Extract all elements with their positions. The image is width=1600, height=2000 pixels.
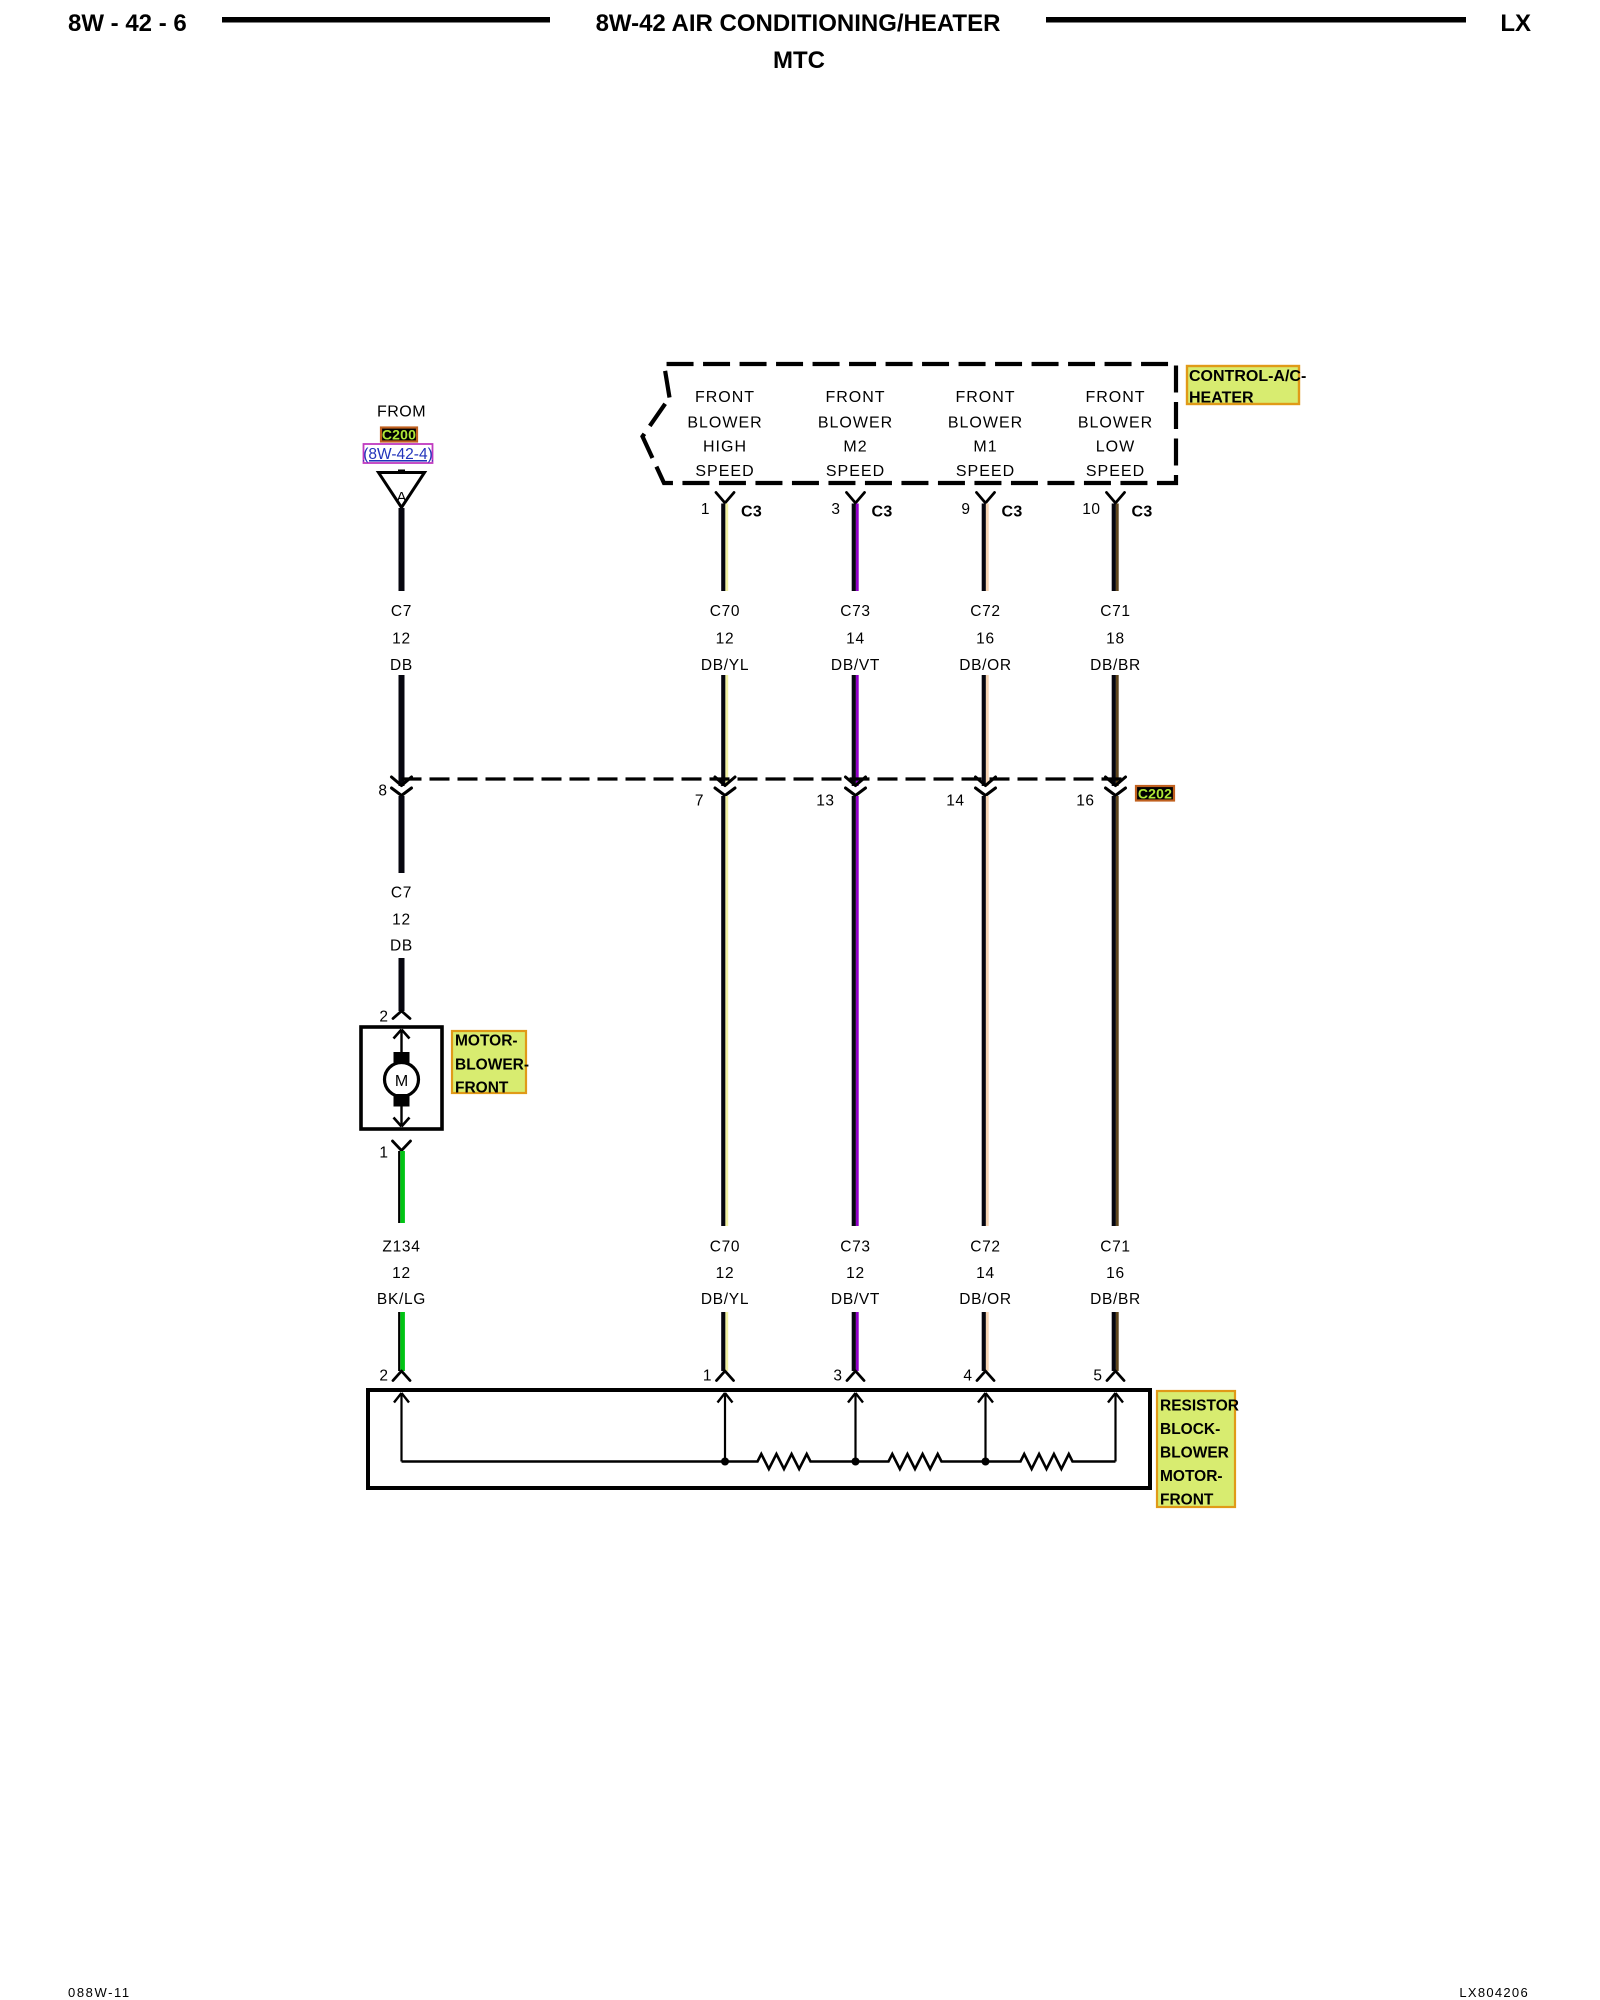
svg-text:12: 12	[846, 1265, 865, 1282]
svg-text:BLOWER-: BLOWER-	[455, 1057, 529, 1074]
svg-text:DB/YL: DB/YL	[701, 1291, 749, 1308]
svg-text:DB: DB	[390, 938, 413, 955]
svg-text:FRONT: FRONT	[1160, 1492, 1214, 1509]
label RESISTOR BLOCK-BLOWER MOTOR-FRONT	[1157, 1391, 1239, 1509]
connector C202 symbol pin 14	[976, 777, 996, 796]
connector C202 symbol pin 16	[1106, 777, 1126, 796]
svg-text:18: 18	[1106, 631, 1125, 648]
svg-text:FRONT: FRONT	[455, 1080, 509, 1097]
wire label C70 upper	[701, 603, 749, 674]
svg-text:C70: C70	[710, 603, 741, 620]
wire C73 segment D	[852, 1312, 859, 1371]
connector A triangle	[379, 470, 425, 508]
connector symbol motor pin 1	[393, 1141, 411, 1151]
wire label Z134 12 BK/LG	[377, 1239, 426, 1309]
wire C71 segment A	[1112, 504, 1119, 592]
svg-text:C200: C200	[382, 427, 416, 443]
wire C72 segment D	[982, 1312, 989, 1371]
connector symbol C3 pin 1	[716, 493, 734, 504]
svg-text:BLOWER: BLOWER	[1160, 1445, 1229, 1462]
svg-text:C73: C73	[840, 1239, 871, 1256]
wire label C70 lower	[701, 1239, 749, 1309]
wire label C7 12 DB lower	[390, 885, 413, 955]
junction dot at x=855.5	[852, 1458, 860, 1466]
connector symbol resistor pin 5	[1107, 1371, 1124, 1381]
svg-text:14: 14	[846, 631, 865, 648]
wire C73 segment C	[852, 796, 859, 1226]
connector C202 symbol pin 13	[846, 777, 866, 796]
wire label C73 upper	[831, 603, 880, 674]
svg-text:5: 5	[1093, 1368, 1102, 1385]
svg-text:DB/BR: DB/BR	[1090, 657, 1141, 674]
wire w1 green Z134 upper	[398, 1151, 405, 1223]
wire label C71 lower	[1090, 1239, 1141, 1309]
resistor block internal pin arrow at x=401.5	[394, 1393, 409, 1462]
svg-text:12: 12	[716, 631, 735, 648]
control box pin function text at x=985.5	[948, 389, 1023, 480]
svg-text:BLOWER: BLOWER	[948, 415, 1023, 432]
connector symbol resistor pin 1	[717, 1371, 734, 1381]
svg-text:3: 3	[831, 501, 840, 518]
svg-text:FRONT: FRONT	[1085, 389, 1145, 406]
svg-text:M: M	[395, 1073, 408, 1090]
svg-text:8: 8	[378, 783, 387, 800]
motor internal top arrow	[394, 1030, 410, 1053]
wire C70 segment B	[721, 675, 728, 786]
svg-text:2: 2	[379, 1368, 388, 1385]
svg-text:LOW: LOW	[1096, 439, 1135, 456]
wire label C73 lower	[831, 1239, 880, 1309]
svg-text:C71: C71	[1100, 1239, 1131, 1256]
svg-text:C72: C72	[970, 1239, 1001, 1256]
svg-text:C3: C3	[872, 504, 893, 521]
connector symbol C3 pin 10	[1107, 493, 1125, 504]
svg-text:BLOCK-: BLOCK-	[1160, 1421, 1220, 1438]
resistor block internal pin arrow at x=855.5	[848, 1393, 863, 1462]
svg-text:DB: DB	[390, 657, 413, 674]
svg-text:A: A	[396, 489, 406, 506]
wire label C71 upper	[1090, 603, 1141, 674]
svg-text:M2: M2	[843, 439, 867, 456]
wire C73 segment B	[852, 675, 859, 786]
svg-text:C202: C202	[1138, 786, 1172, 802]
svg-text:DB/OR: DB/OR	[959, 657, 1012, 674]
svg-text:BK/LG: BK/LG	[377, 1291, 426, 1308]
svg-text:MOTOR-: MOTOR-	[1160, 1468, 1223, 1485]
wire C70 segment A	[721, 504, 728, 592]
svg-text:10: 10	[1082, 501, 1100, 518]
control box pin function text at x=725.0	[687, 389, 762, 480]
control box pin function text at x=855.5	[818, 389, 893, 480]
svg-text:HIGH: HIGH	[703, 439, 747, 456]
svg-text:088W-11: 088W-11	[68, 1985, 131, 2000]
wire C73 segment A	[852, 504, 859, 592]
svg-text:12: 12	[392, 631, 411, 648]
svg-text:DB/VT: DB/VT	[831, 657, 880, 674]
svg-text:12: 12	[392, 1265, 411, 1282]
svg-text:FROM: FROM	[377, 404, 426, 421]
svg-text:C71: C71	[1100, 603, 1131, 620]
svg-text:16: 16	[1106, 1265, 1125, 1282]
resistor block internal pin arrow at x=725.0	[718, 1393, 733, 1462]
wire C70 segment C	[721, 796, 728, 1226]
header rule right	[1046, 17, 1466, 23]
svg-text:12: 12	[392, 912, 411, 929]
svg-text:DB/YL: DB/YL	[701, 657, 749, 674]
wire w1 segment B	[399, 675, 405, 786]
connector C202 symbol w1 pin 8	[392, 777, 412, 796]
svg-text:4: 4	[963, 1368, 972, 1385]
wire C72 segment B	[982, 675, 989, 786]
svg-text:12: 12	[716, 1265, 735, 1282]
svg-text:LX: LX	[1500, 10, 1531, 37]
svg-text:C3: C3	[1002, 504, 1023, 521]
svg-text:3: 3	[833, 1368, 842, 1385]
svg-text:MOTOR-: MOTOR-	[455, 1033, 518, 1050]
svg-text:7: 7	[695, 793, 704, 810]
svg-text:SPEED: SPEED	[1086, 463, 1145, 480]
connector symbol C3 pin 9	[977, 493, 995, 504]
svg-text:FRONT: FRONT	[825, 389, 885, 406]
svg-text:8W - 42 - 6: 8W - 42 - 6	[68, 10, 187, 37]
resistor block internal pin arrow at x=985.5	[978, 1393, 993, 1462]
wire C71 segment B	[1112, 675, 1119, 786]
svg-text:14: 14	[976, 1265, 995, 1282]
svg-text:DB/VT: DB/VT	[831, 1291, 880, 1308]
header rule left	[222, 17, 550, 23]
svg-text:MTC: MTC	[773, 47, 825, 74]
junction dot at x=725.0	[721, 1458, 729, 1466]
wire C72 segment C	[982, 796, 989, 1226]
svg-text:BLOWER: BLOWER	[687, 415, 762, 432]
wire C71 segment D	[1112, 1312, 1119, 1371]
wire w1 segment C	[399, 796, 405, 873]
svg-text:C7: C7	[391, 885, 412, 902]
junction dot at x=985.5	[982, 1458, 990, 1466]
component box RESISTOR BLOCK-BLOWER MOTOR-FRONT	[368, 1390, 1150, 1488]
svg-text:BLOWER: BLOWER	[1078, 415, 1153, 432]
connector symbol resistor pin 3	[847, 1371, 864, 1381]
motor brush top	[394, 1052, 410, 1065]
svg-text:FRONT: FRONT	[955, 389, 1015, 406]
hyperlink (8W-42-4)	[363, 444, 432, 463]
wire w1 segment D	[399, 958, 405, 1011]
svg-text:LX804206: LX804206	[1459, 1985, 1529, 2000]
svg-text:SPEED: SPEED	[826, 463, 885, 480]
wire C71 segment C	[1112, 796, 1119, 1226]
wire C70 segment D	[721, 1312, 728, 1371]
wire label C7 12 DB upper	[390, 603, 413, 674]
label MOTOR-BLOWER-FRONT	[452, 1031, 529, 1097]
svg-text:1: 1	[379, 1145, 388, 1162]
wire w1 segment A (C7 DB)	[399, 508, 405, 591]
svg-text:C70: C70	[710, 1239, 741, 1256]
svg-text:16: 16	[1076, 793, 1094, 810]
hyperlink chip C200	[381, 427, 417, 443]
svg-text:M1: M1	[973, 439, 997, 456]
connector symbol motor pin 2	[393, 1011, 410, 1019]
svg-text:C3: C3	[741, 504, 762, 521]
component box CONTROL-A/C-HEATER (dashed)	[643, 364, 1177, 483]
connector C202 symbol pin 7	[715, 777, 735, 796]
svg-text:RESISTOR: RESISTOR	[1160, 1398, 1239, 1415]
connector C202 dashed line	[402, 777, 1125, 780]
hyperlink chip C202	[1136, 786, 1174, 802]
resistor block bus wire with resistors R1 R2 R3	[402, 1454, 1116, 1469]
svg-text:C73: C73	[840, 603, 871, 620]
svg-text:14: 14	[946, 793, 964, 810]
svg-text:16: 16	[976, 631, 995, 648]
wire w1 green Z134 lower	[398, 1312, 405, 1371]
svg-text:1: 1	[701, 501, 710, 518]
wire label C72 upper	[959, 603, 1012, 674]
svg-text:DB/OR: DB/OR	[959, 1291, 1012, 1308]
svg-text:C3: C3	[1132, 504, 1153, 521]
control box pin function text at x=1115.5	[1078, 389, 1153, 480]
motor brush bottom	[394, 1094, 410, 1107]
label CONTROL-A/C-HEATER	[1187, 366, 1306, 407]
svg-text:8W-42 AIR CONDITIONING/HEATER: 8W-42 AIR CONDITIONING/HEATER	[596, 10, 1001, 37]
motor internal bottom arrow	[394, 1107, 410, 1127]
svg-text:BLOWER: BLOWER	[818, 415, 893, 432]
svg-text:HEATER: HEATER	[1189, 390, 1254, 407]
svg-text:C72: C72	[970, 603, 1001, 620]
svg-text:CONTROL-A/C-: CONTROL-A/C-	[1189, 368, 1306, 385]
svg-text:(8W-42-4): (8W-42-4)	[363, 446, 432, 463]
connector symbol resistor pin 2	[393, 1371, 410, 1381]
svg-text:1: 1	[703, 1368, 712, 1385]
svg-text:2: 2	[379, 1009, 388, 1026]
svg-text:FRONT: FRONT	[695, 389, 755, 406]
svg-text:Z134: Z134	[382, 1239, 420, 1256]
wire label C72 lower	[959, 1239, 1012, 1309]
svg-text:SPEED: SPEED	[956, 463, 1015, 480]
svg-text:C7: C7	[391, 603, 412, 620]
svg-text:9: 9	[961, 501, 970, 518]
connector symbol C3 pin 3	[847, 493, 865, 504]
component box MOTOR-BLOWER-FRONT	[361, 1027, 442, 1129]
svg-text:DB/BR: DB/BR	[1090, 1291, 1141, 1308]
motor M circle	[385, 1063, 419, 1097]
wire C72 segment A	[982, 504, 989, 592]
connector symbol resistor pin 4	[977, 1371, 994, 1381]
svg-text:13: 13	[816, 793, 834, 810]
svg-text:SPEED: SPEED	[695, 463, 754, 480]
resistor block internal pin arrow at x=1115.5	[1108, 1393, 1123, 1462]
